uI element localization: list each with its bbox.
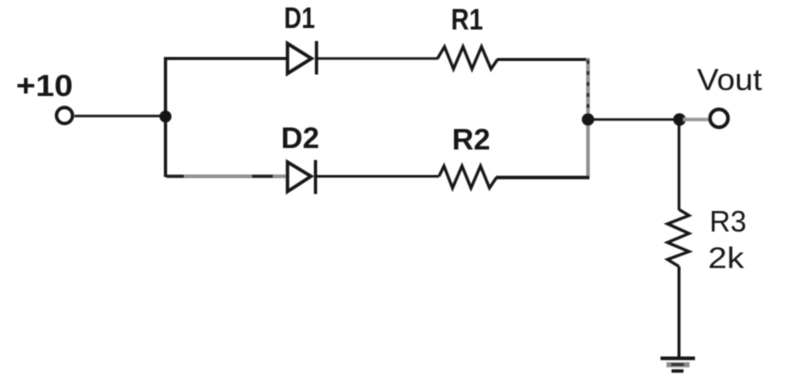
svg-text:Vout: Vout (697, 62, 762, 97)
wire input to left node (75, 115, 165, 118)
wire D2 to R2 (317, 175, 439, 178)
wire right vertical bus (gray) (586, 58, 590, 178)
wire output stub to terminal (gray) (683, 118, 710, 122)
terminal +10 input (57, 108, 73, 124)
resistor R3 (668, 210, 690, 267)
wire R1 to right corner (497, 58, 589, 61)
wire bottom branch left black dashes (166, 175, 273, 178)
svg-text:+10: +10 (16, 68, 73, 103)
wire output horizontal (588, 118, 681, 121)
resistor R1 (438, 47, 498, 69)
svg-text:R1: R1 (451, 4, 483, 37)
wire D1 to R1 (318, 57, 438, 60)
terminal Vout (710, 109, 728, 127)
wire bottom branch left (gray) (167, 175, 287, 179)
diode D1 (288, 41, 317, 75)
node output junction (673, 113, 686, 126)
svg-text:D2: D2 (281, 122, 319, 155)
resistor R2 (439, 166, 497, 188)
svg-text:D1: D1 (284, 2, 315, 35)
wire output vertical down (678, 121, 681, 210)
wire top branch left (164, 57, 287, 60)
svg-text:2k: 2k (708, 242, 745, 275)
node right junction (582, 113, 594, 125)
svg-text:R2: R2 (452, 124, 490, 157)
diode D2 (288, 160, 316, 194)
wire right vertical dashes (587, 60, 590, 117)
wire R3 to ground (678, 267, 681, 359)
wire left vertical bus (164, 57, 167, 177)
node left junction (160, 111, 172, 123)
ground (661, 358, 696, 371)
wire R2 to right corner (496, 176, 590, 179)
svg-text:R3: R3 (710, 206, 747, 239)
